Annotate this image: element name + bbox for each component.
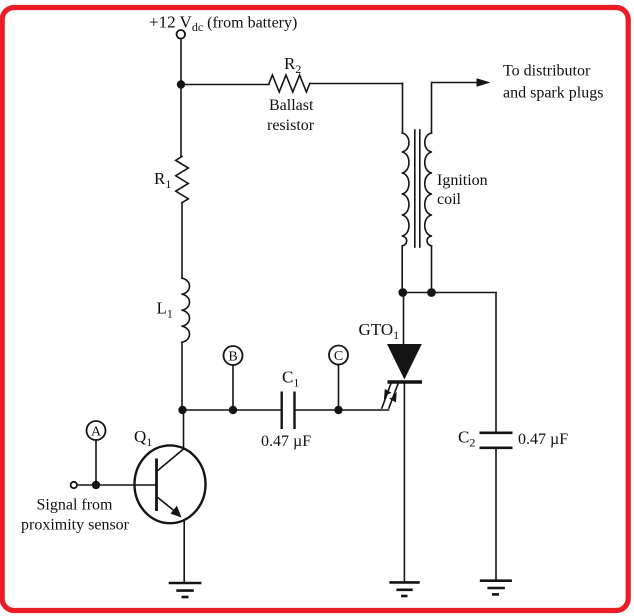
svg-text:resistor: resistor: [267, 117, 315, 134]
svg-text:0.47 µF: 0.47 µF: [518, 431, 568, 448]
svg-text:B: B: [228, 350, 237, 365]
svg-text:Ignition: Ignition: [437, 172, 488, 189]
svg-text:0.47 µF: 0.47 µF: [261, 433, 311, 450]
svg-text:coil: coil: [437, 191, 462, 208]
svg-text:Signal from: Signal from: [37, 497, 114, 514]
svg-text:and spark plugs: and spark plugs: [503, 85, 603, 102]
svg-text:proximity sensor: proximity sensor: [21, 517, 130, 534]
svg-text:A: A: [91, 425, 102, 440]
svg-text:Ballast: Ballast: [269, 97, 314, 114]
svg-text:GTO1: GTO1: [359, 320, 400, 342]
svg-text:+12 Vdc (from battery): +12 Vdc (from battery): [149, 13, 297, 35]
svg-text:To distributor: To distributor: [503, 63, 591, 80]
svg-text:C: C: [334, 349, 343, 364]
